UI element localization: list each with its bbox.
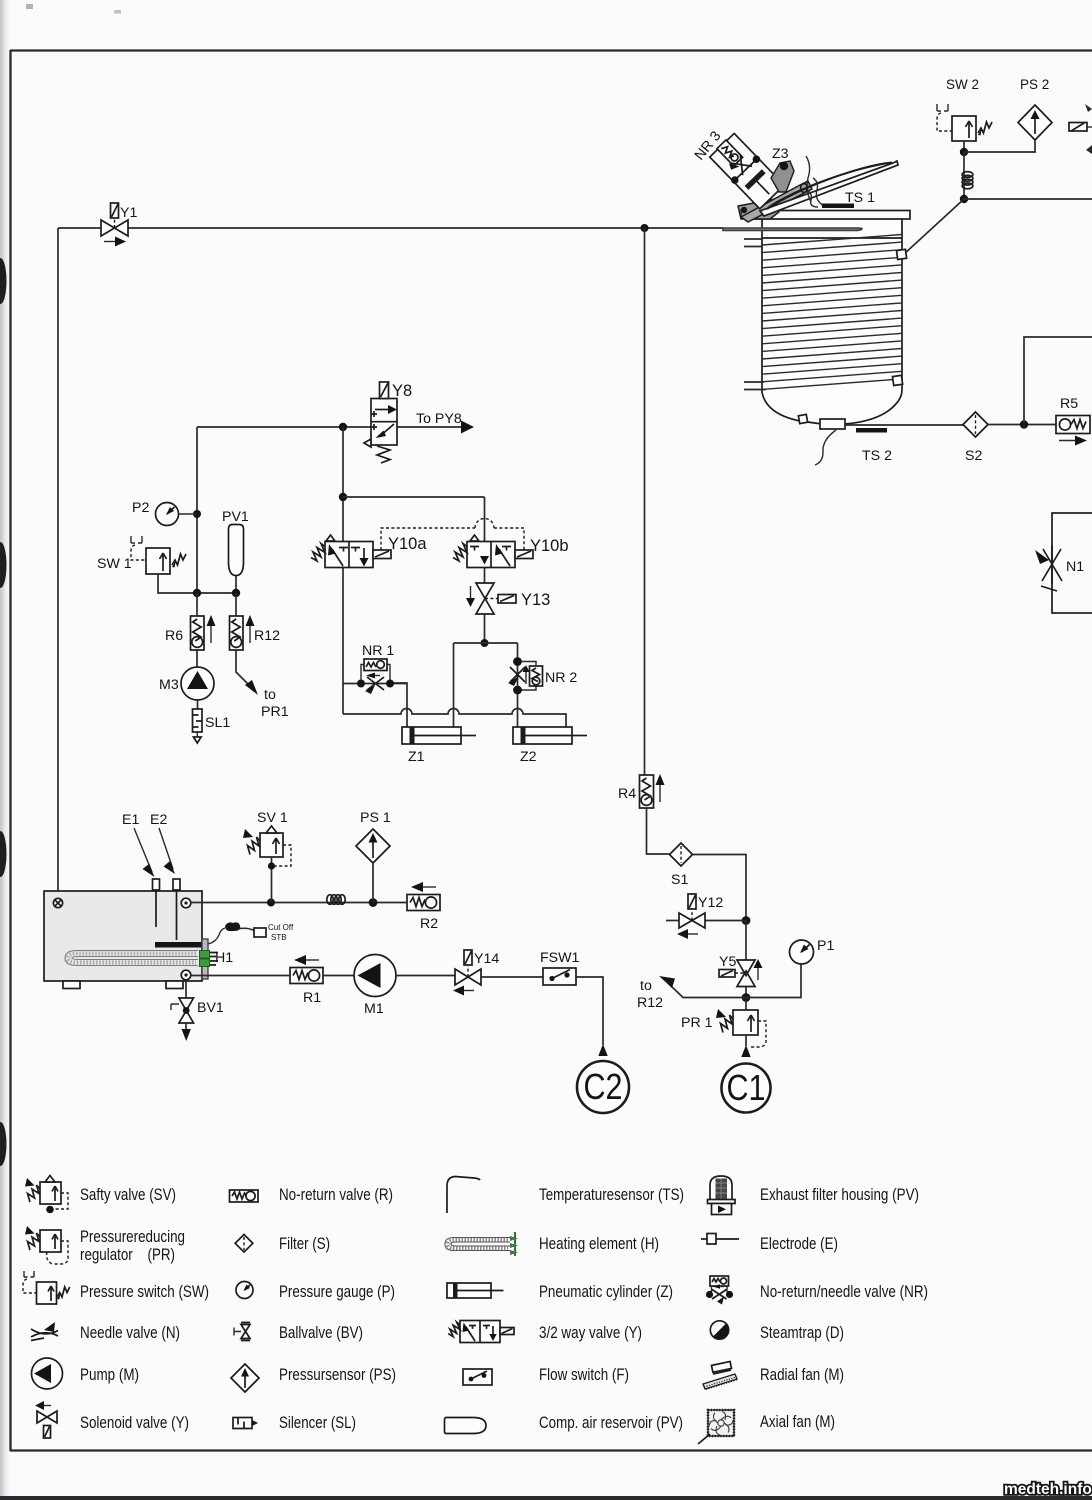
wire node to PS2 [964, 140, 1035, 152]
svg-text:NR 1: NR 1 [362, 643, 394, 659]
legend icon heating element H [445, 1232, 518, 1256]
svg-text:Exhaust filter housing (PV): Exhaust filter housing (PV) [760, 1186, 919, 1204]
svg-text:NR 2: NR 2 [545, 670, 577, 686]
svg-text:N1: N1 [1066, 559, 1084, 575]
legend icon solenoid valve Y [35, 1401, 57, 1438]
chamber lid plate [752, 211, 910, 220]
pump M3 [181, 667, 214, 700]
wire R4 to S1 [647, 808, 671, 854]
scan binding bump 1 [0, 258, 7, 304]
svg-text:P1: P1 [817, 938, 834, 954]
legend icon pressure sensor PS [231, 1364, 259, 1392]
svg-text:PV1: PV1 [222, 509, 249, 525]
wire manifold to R12 [235, 593, 237, 616]
Z3 clevis pivot [780, 162, 788, 170]
legend icon pressure reducing regulator PR [25, 1226, 68, 1264]
svg-text:Silencer (SL): Silencer (SL) [279, 1414, 356, 1432]
pressure switch SW1 [131, 536, 186, 574]
legend icon 3/2 way valve Y [448, 1321, 514, 1343]
wire Y10a outlet drop to NR1 [342, 567, 344, 714]
svg-text:No-return valve (R): No-return valve (R) [279, 1186, 393, 1204]
frame border bottom [10, 1449, 1092, 1451]
legend icon temperature sensor TS [447, 1177, 480, 1214]
tank bottom outlet port [181, 970, 191, 980]
svg-text:SV 1: SV 1 [257, 810, 288, 826]
node Y10b tap [339, 493, 347, 501]
svg-text:PS 2: PS 2 [1020, 77, 1049, 92]
pneumatic cylinder Z3 barrel with NR3 [708, 131, 786, 210]
filter S1 [670, 843, 693, 866]
legend icon silencer SL [233, 1418, 258, 1429]
lid lever arm gray [741, 181, 812, 222]
legend icon pump M [32, 1358, 63, 1389]
wire Y14 to FSW1 [481, 976, 543, 978]
pneumatic cylinder Z1 [402, 727, 476, 744]
svg-text:Y12: Y12 [698, 895, 723, 911]
svg-text:P2: P2 [132, 500, 149, 516]
svg-text:Y10a: Y10a [388, 535, 427, 553]
wire node to Y5 [745, 921, 747, 961]
wire Y10b feed across [343, 496, 485, 498]
svg-text:SL1: SL1 [205, 715, 230, 731]
svg-text:PS 1: PS 1 [360, 810, 391, 826]
flow switch FSW1 [543, 968, 576, 985]
svg-text:Z3: Z3 [772, 146, 789, 162]
svg-text:Safty valve (SV): Safty valve (SV) [80, 1186, 176, 1204]
air reservoir PV1 [229, 525, 244, 576]
svg-text:BV1: BV1 [197, 1000, 224, 1016]
node SW2 PS2 junction [960, 148, 968, 156]
wire Y8 feed horizontal [197, 426, 371, 428]
scan speck top left 2 [114, 10, 121, 14]
wire R1 to M1 [323, 975, 354, 977]
frame border left [9, 50, 11, 1451]
pressure gauge P1 [790, 940, 814, 964]
hinge foot drop line [741, 209, 745, 219]
node chamber jacket junction [960, 195, 968, 203]
3/2 way valve Y10a [311, 535, 391, 568]
svg-text:R5: R5 [1060, 396, 1078, 412]
wire bottom manifold with hops [343, 709, 566, 727]
svg-text:Heating element (H): Heating element (H) [539, 1235, 659, 1253]
node top bus junction [641, 224, 649, 232]
no-return valve R4 [640, 774, 665, 808]
pressure reducing regulator PR1 [716, 1009, 766, 1057]
node PS1 tap [369, 898, 378, 907]
wire Y8 outlet to PY8 [397, 426, 462, 428]
wire tank top bus [191, 902, 408, 904]
wire node to P1 [746, 964, 801, 998]
solenoid valve Y5 [719, 959, 763, 987]
svg-text:Comp. air reservoir (PV): Comp. air reservoir (PV) [539, 1414, 683, 1432]
legend icon pneumatic cylinder Z [447, 1283, 504, 1298]
tank spray nozzle port [53, 898, 62, 907]
pressure sensor PS1 [356, 829, 390, 902]
wire center drop from top bus to R4 [644, 228, 646, 775]
TS2 sensor cable [815, 430, 836, 465]
svg-text:E2: E2 [150, 812, 167, 828]
wire top bus Y1 to chamber probe [128, 227, 723, 229]
tank foot left [63, 981, 80, 989]
wire Y10 supply drop [342, 427, 344, 541]
H1 mounting plate [202, 939, 208, 979]
connection C1 [722, 1064, 771, 1113]
H1 green terminal upper [200, 951, 210, 959]
wire junction to right edge [964, 198, 1092, 200]
legend icon no-return valve R [230, 1190, 259, 1202]
wire NR2 outlet to Z2 piston port [517, 690, 519, 727]
svg-text:R2: R2 [420, 916, 438, 932]
legend icon ball valve BV [234, 1323, 250, 1341]
wire chamber drain to S2 [845, 424, 963, 426]
heating element H1 terminal bar [155, 942, 207, 948]
svg-text:Steamtrap (D): Steamtrap (D) [760, 1324, 844, 1342]
3/2 way valve Y10b [453, 535, 533, 568]
svg-text:Pneumatic cylinder (Z): Pneumatic cylinder (Z) [539, 1283, 673, 1301]
wire P2 branch drop [196, 427, 198, 593]
pump M1 [354, 955, 396, 997]
H1 terminal pins [210, 953, 218, 966]
legend icon no-return needle valve NR [706, 1276, 733, 1305]
3/2 way valve Y8 [364, 382, 397, 463]
svg-text:R6: R6 [165, 628, 183, 644]
chamber vessel body [762, 219, 902, 425]
scan left edge shading [0, 0, 10, 1500]
wire tank drain drop [185, 980, 187, 999]
wire R12 to PR1 link [236, 650, 250, 686]
svg-text:S2: S2 [965, 448, 982, 464]
ball valve BV1 [171, 998, 194, 1023]
pilot line Y10a to Y10b dashed [381, 519, 524, 551]
chamber heating coil [762, 235, 902, 390]
lid hinge foot gray [738, 199, 779, 219]
svg-text:SW 2: SW 2 [946, 77, 979, 92]
svg-text:M1: M1 [364, 1001, 384, 1017]
needle valve N1 [1035, 545, 1062, 591]
arrow E2 pointer [159, 828, 173, 869]
svg-text:Y8: Y8 [392, 382, 412, 400]
svg-text:M3: M3 [159, 677, 179, 693]
lid latch hook squiggle [806, 189, 818, 207]
legend icon axial fan M [698, 1410, 734, 1444]
chamber drain fitting [798, 414, 845, 429]
water tank body [44, 891, 202, 981]
arrow E1 pointer [134, 828, 152, 872]
wire FSW1 to C2 [576, 977, 603, 1045]
electrode E1 [153, 879, 160, 927]
svg-text:Radial fan (M): Radial fan (M) [760, 1366, 844, 1384]
filter S2 [963, 412, 988, 437]
svg-text:Ballvalve (BV): Ballvalve (BV) [279, 1324, 363, 1342]
chamber sensor probe gray bar [723, 228, 862, 231]
safety valve SV1 [243, 826, 291, 902]
wire M1 to Y14 [396, 975, 455, 977]
wire node to R12 link [668, 983, 746, 998]
node PR1 junction [742, 993, 751, 1002]
no-return valve R2 [407, 882, 440, 911]
svg-text:Pressursensor (PS): Pressursensor (PS) [279, 1366, 396, 1384]
no-return valve R12 [230, 615, 255, 650]
svg-text:C2: C2 [584, 1066, 623, 1107]
svg-text:No-return/needle valve (NR): No-return/needle valve (NR) [760, 1283, 928, 1301]
solenoid valve Y12 [666, 894, 746, 939]
solenoid coil fragment at right edge [1069, 104, 1092, 154]
wire T left leg to Z1 rod port [453, 643, 455, 727]
legend icon electrode E [701, 1234, 739, 1245]
svg-text:medteh.info: medteh.info [1004, 1481, 1092, 1498]
node cylinder T junction [481, 639, 489, 647]
wire node down to chamber node [963, 152, 965, 199]
no-return valve R1 [290, 955, 323, 984]
wire S1 to Y12 node [693, 855, 747, 921]
svg-text:To PY8: To PY8 [416, 411, 462, 427]
watermark medteh.info [1004, 1481, 1092, 1498]
scan binding bump 3 [0, 831, 7, 877]
wire left drop from top bus to tank [57, 228, 59, 899]
hinge foot bolt [741, 207, 747, 213]
tank foot right [166, 981, 183, 989]
legend icon filter S [235, 1235, 253, 1253]
silencer SL1 [193, 709, 203, 743]
cut off STB sensor blob [225, 922, 240, 931]
svg-text:STB: STB [271, 933, 287, 942]
wire NR1 outlet elbow to Z1 piston port [390, 683, 407, 727]
wire S2 to R5 [988, 424, 1056, 426]
cut off STB wiring [208, 928, 254, 944]
coil outlet stubs bottom left [744, 382, 766, 390]
coil connector bottom right [892, 375, 902, 385]
svg-text:to: to [640, 978, 652, 994]
svg-text:Y5: Y5 [719, 954, 736, 970]
svg-text:R12: R12 [637, 995, 663, 1011]
pressure sensor PS2 [1018, 105, 1052, 140]
svg-text:Pressure gauge (P): Pressure gauge (P) [279, 1283, 395, 1301]
svg-text:regulator (PR): regulator (PR) [80, 1246, 175, 1264]
scan speck top left [26, 4, 33, 9]
solenoid valve Y1 [101, 203, 128, 247]
legend icon exhaust filter housing PV [708, 1176, 736, 1215]
pressure switch SW2 [937, 104, 992, 141]
svg-text:R1: R1 [303, 990, 321, 1006]
wire Y5 to PR1 node [745, 987, 747, 998]
legend icon pressure gauge P [236, 1282, 253, 1299]
TS1 sensor cable [813, 178, 824, 206]
tank top outlet port [181, 898, 191, 908]
frame border top [10, 49, 1092, 51]
legend icon flow switch F [463, 1369, 492, 1385]
TS2 sensor bar [856, 428, 887, 433]
svg-text:Flow switch (F): Flow switch (F) [539, 1366, 629, 1384]
flexible hose coil on tank bus [327, 895, 345, 905]
lid disk lens [767, 163, 892, 210]
legend icon safety valve SV [25, 1176, 68, 1214]
svg-text:Y10b: Y10b [530, 537, 569, 555]
pneumatic cylinder Z2 [513, 727, 587, 744]
legend icon radial fan M [703, 1361, 738, 1389]
arrow to PR1 [245, 680, 258, 695]
scan binding bump 4 [0, 1122, 7, 1166]
node manifold R6 [193, 589, 201, 597]
arrow into C2 line [598, 1044, 607, 1056]
wire M3 to SL1 [197, 700, 199, 709]
wire diagonal to chamber jacket [903, 199, 964, 255]
svg-text:Y13: Y13 [521, 591, 550, 609]
svg-text:3/2 way valve (Y): 3/2 way valve (Y) [539, 1324, 642, 1342]
svg-text:SW 1: SW 1 [97, 556, 132, 572]
wire junction riser to right edge [1024, 337, 1092, 425]
legend icon comp air reservoir PV [445, 1418, 487, 1434]
svg-text:Z1: Z1 [408, 749, 425, 765]
H1 green terminal lower [200, 959, 210, 967]
svg-text:R4: R4 [618, 786, 636, 802]
svg-text:TS 1: TS 1 [845, 190, 875, 206]
wire Y13 outlet to T [484, 614, 486, 643]
svg-text:PR 1: PR 1 [681, 1015, 713, 1031]
arrow to R12 [659, 976, 675, 988]
lid disk blade [760, 161, 898, 216]
legend icon steamtrap D [710, 1321, 728, 1339]
svg-text:E1: E1 [122, 812, 139, 828]
svg-text:S1: S1 [671, 872, 688, 888]
Z3 rod clevis gray [771, 161, 794, 192]
no-return valve R5 [1056, 416, 1090, 446]
svg-text:Pressurereducing: Pressurereducing [80, 1228, 185, 1246]
wire top bus from left corner to Y1 [58, 227, 101, 229]
svg-text:C1: C1 [727, 1067, 766, 1108]
node S2 R5 junction [1020, 420, 1028, 428]
TS1 sensor bar [822, 204, 854, 209]
svg-text:Cut Off: Cut Off [268, 923, 294, 932]
electrode E2 [173, 879, 180, 940]
svg-text:Axial fan (M): Axial fan (M) [760, 1413, 835, 1431]
scan bottom dark strip [0, 1496, 1092, 1500]
svg-text:Solenoid valve (Y): Solenoid valve (Y) [80, 1414, 189, 1432]
wire node to PR1 [745, 998, 747, 1011]
wire Y10b feed drop [484, 497, 486, 541]
svg-text:Pump (M): Pump (M) [80, 1366, 139, 1384]
wire PV1 to manifold [235, 576, 237, 594]
svg-text:PR1: PR1 [261, 704, 289, 720]
needle valve N1 box [1052, 513, 1092, 613]
svg-text:Needle valve (N): Needle valve (N) [80, 1324, 180, 1342]
BV1 drain arrow [185, 1023, 187, 1030]
coil connector top right [896, 249, 906, 259]
coil inlet stubs top left [744, 239, 762, 247]
svg-text:Pressure switch (SW): Pressure switch (SW) [80, 1283, 209, 1301]
svg-text:Y14: Y14 [474, 951, 499, 967]
svg-text:R12: R12 [254, 628, 280, 644]
cut off STB box [254, 928, 266, 937]
no-return needle valve NR2 [508, 657, 543, 694]
svg-text:Temperaturesensor (TS): Temperaturesensor (TS) [539, 1186, 684, 1204]
legend icon needle valve N [31, 1322, 58, 1341]
Z3 hose squiggle [806, 156, 811, 202]
node P2 tap [193, 510, 201, 518]
svg-text:Electrode (E): Electrode (E) [760, 1235, 838, 1253]
svg-text:Z2: Z2 [520, 749, 537, 765]
wire T horizontal [454, 642, 518, 644]
no-return needle valve NR1 [343, 659, 407, 694]
svg-text:to: to [264, 687, 276, 703]
svg-text:Y1: Y1 [120, 205, 137, 221]
node manifold R12 [232, 589, 240, 597]
node SV1 tap [267, 899, 275, 907]
node Y12 junction [742, 916, 751, 925]
svg-text:FSW1: FSW1 [540, 950, 580, 966]
heating element H1 coils [68, 954, 196, 963]
node Y8 feed junction [339, 423, 347, 431]
solenoid valve Y13 [466, 583, 516, 614]
svg-text:Filter (S): Filter (S) [279, 1235, 330, 1253]
scan binding bump 2 [0, 542, 7, 588]
svg-text:H1: H1 [215, 950, 233, 966]
flexible hose coil on SW2 drop [962, 172, 973, 189]
wire SW2 to node [963, 141, 965, 152]
wire manifold to R6 [196, 593, 198, 616]
no-return valve R6 [191, 615, 216, 650]
arrow To PY8 [461, 421, 474, 434]
solenoid valve Y14 [453, 950, 481, 996]
connection C2 [577, 1061, 629, 1113]
wire R6 to M3 [196, 650, 198, 667]
wire Y10b outlet to Y13 [484, 567, 486, 583]
wire SW1 drop and manifold [158, 574, 236, 593]
svg-text:TS 2: TS 2 [862, 448, 892, 464]
pressure gauge P2 [156, 503, 197, 526]
legend icon pressure switch SW [23, 1271, 70, 1304]
wire T right leg to NR2 [517, 643, 519, 661]
wire tank outlet to R1 [191, 975, 291, 977]
